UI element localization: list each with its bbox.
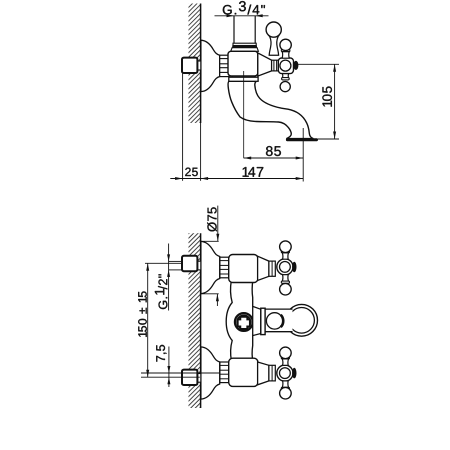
spout outlet base (dark)	[286, 138, 318, 141]
upper handle hub outer	[277, 259, 293, 275]
valve stem connector ribs (top view)	[272, 60, 279, 71]
arrow 150 up	[146, 263, 149, 271]
upper supply block (bottom view)	[182, 256, 197, 271]
lower handle dark lens	[292, 368, 296, 379]
arrow 105 bottom	[333, 132, 336, 140]
upper supply tenon (bottom view)	[197, 261, 200, 270]
upper handle down collar	[281, 281, 289, 283]
dimension 7,5 line	[168, 347, 170, 388]
arrow Ø75 up	[216, 294, 219, 302]
handle lower arm stem	[282, 74, 288, 78]
wall hatch (bottom view)	[189, 233, 201, 408]
upper handle hub inner	[280, 262, 291, 273]
dimension 105 extension top	[298, 63, 340, 65]
arrow G3/4 left	[227, 14, 235, 17]
supply elbow tenon (top view)	[197, 61, 200, 70]
handle upper-right arm collar	[281, 49, 290, 51]
lower handle down ball	[280, 387, 292, 399]
handle lower arm ball	[280, 82, 290, 92]
dimension 105 extension bottom	[318, 138, 339, 140]
arrow 25 left	[175, 177, 183, 180]
dimension 7,5 extension (valve axis)	[141, 372, 220, 374]
lower valve connector	[269, 365, 275, 381]
escutcheon bell (side view)	[201, 40, 220, 91]
spout cone (bottom view)	[253, 306, 261, 335]
spout outlet inner ring	[289, 308, 315, 334]
inlet flange dark band	[232, 46, 257, 48]
body lower neck	[231, 76, 233, 77]
lower handle up ball	[280, 347, 292, 359]
central column right edge lower	[251, 336, 254, 361]
arrow 85 left	[244, 157, 252, 160]
wall face line (top view)	[200, 4, 202, 124]
central column	[226, 280, 253, 361]
handle lower arm collar	[282, 78, 290, 80]
handle upper-right arm ball	[280, 39, 291, 50]
extension line from supply block	[182, 73, 184, 181]
label 7,5	[156, 345, 166, 362]
handle end dark lens (top view)	[293, 61, 298, 70]
arrow 105 top	[333, 64, 336, 72]
upper handle up stem	[282, 253, 288, 260]
label G.3/4"	[223, 1, 265, 14]
lower supply block (bottom view)	[182, 370, 197, 385]
label G.1/2"	[155, 274, 167, 309]
central column right edge upper	[251, 280, 254, 307]
lower handle down stem	[282, 381, 288, 388]
lower valve body (bottom view)	[229, 358, 258, 386]
dimension 150±15 line	[147, 263, 149, 377]
inlet flange thin band	[233, 43, 256, 45]
dimension G.1/2 extension lines	[169, 260, 183, 262]
spout flange bar	[261, 308, 265, 334]
handle upper-left arm ball	[266, 22, 281, 37]
inlet flange skirt	[231, 48, 259, 52]
upper escutcheon neck ribs	[220, 257, 229, 278]
upper handle up collar	[281, 251, 289, 253]
central column left edge	[226, 280, 232, 361]
label Ø75	[207, 207, 217, 231]
arrow Ø75 down	[216, 234, 219, 242]
arrow G.1/2 up	[167, 270, 170, 277]
dimension 85 line	[244, 157, 304, 159]
dimension Ø75 leader upper	[217, 206, 219, 242]
lower handle hub outer	[277, 365, 293, 381]
lower escutcheon (bottom view)	[201, 347, 220, 399]
lower escutcheon neck ribs	[220, 362, 229, 383]
handle hub circle (top view)	[280, 60, 291, 71]
dimension 150±15 extension top	[145, 262, 182, 264]
spout nut outer ring	[235, 313, 253, 331]
spout collar ring	[229, 77, 258, 81]
valve centerline	[243, 71, 245, 158]
dimension Ø75 leader lower	[216, 294, 218, 306]
supply elbow block (top view)	[182, 58, 197, 73]
escutcheon neck ribs (top view)	[220, 55, 229, 76]
label 25	[185, 168, 198, 177]
mixer body (top view)	[228, 51, 258, 76]
spout tube ring dark crescent	[281, 315, 284, 327]
upper escutcheon (bottom view)	[201, 241, 220, 293]
arrow 85 right	[296, 157, 304, 160]
valve cone (top view)	[258, 53, 272, 76]
label 150±15	[138, 291, 147, 336]
upper handle down stem	[282, 275, 288, 282]
spout tube ring	[266, 313, 282, 329]
lower supply tenon (bottom view)	[197, 374, 200, 383]
upper valve cone (bottom view)	[258, 256, 269, 280]
Ø75 extension line top	[201, 240, 219, 242]
spout tube (bottom view)	[262, 309, 293, 332]
upper handle down ball	[280, 283, 292, 295]
label 85	[266, 146, 281, 156]
arrow 7,5 up	[167, 377, 170, 384]
spout nut inner ring	[237, 315, 250, 328]
arrow 7,5 down	[167, 366, 170, 373]
handle upper-left arm stem	[269, 37, 278, 56]
spout (top view)	[228, 81, 313, 138]
dimension G.3/4" line	[215, 15, 269, 17]
label 147	[243, 167, 264, 177]
wall face extension line down to dimension	[200, 123, 202, 181]
label 105	[322, 86, 332, 106]
arrow G3/4 right	[255, 14, 263, 17]
dimension 25/147 line	[170, 178, 303, 180]
lower handle up collar	[281, 357, 289, 359]
wall face line (bottom view)	[200, 233, 202, 408]
handle upper-left arm collar	[269, 33, 280, 36]
lower valve cone (bottom view)	[258, 362, 269, 385]
handle hub (top view)	[278, 58, 293, 74]
arrow 25 right / 147 left	[201, 177, 209, 180]
arrow 147 right	[296, 177, 304, 180]
upper valve body (bottom view)	[229, 255, 258, 283]
dimension G.1/2 line	[168, 244, 170, 311]
lower handle hub inner	[280, 368, 291, 379]
spout outlet outer ring (bottom view)	[286, 304, 318, 336]
dimension 85 extension right	[302, 128, 304, 182]
Ø75 extension line bottom	[201, 293, 219, 295]
upper handle up ball	[280, 241, 292, 253]
dimension 150±15 extension bottom	[141, 376, 200, 378]
lower handle up stem	[282, 359, 288, 366]
handle upper-right arm stem	[282, 52, 289, 59]
G 3/4 inlet pipe	[233, 16, 235, 43]
lower handle down collar	[281, 387, 289, 389]
arrow 150 down	[146, 370, 149, 378]
upper handle dark lens	[292, 262, 296, 273]
dimension 105 line	[334, 64, 336, 139]
spout nut cross	[238, 317, 250, 329]
arrow G.1/2 down	[167, 254, 170, 261]
wall hatch (top view)	[189, 4, 201, 124]
upper valve connector	[269, 261, 275, 276]
